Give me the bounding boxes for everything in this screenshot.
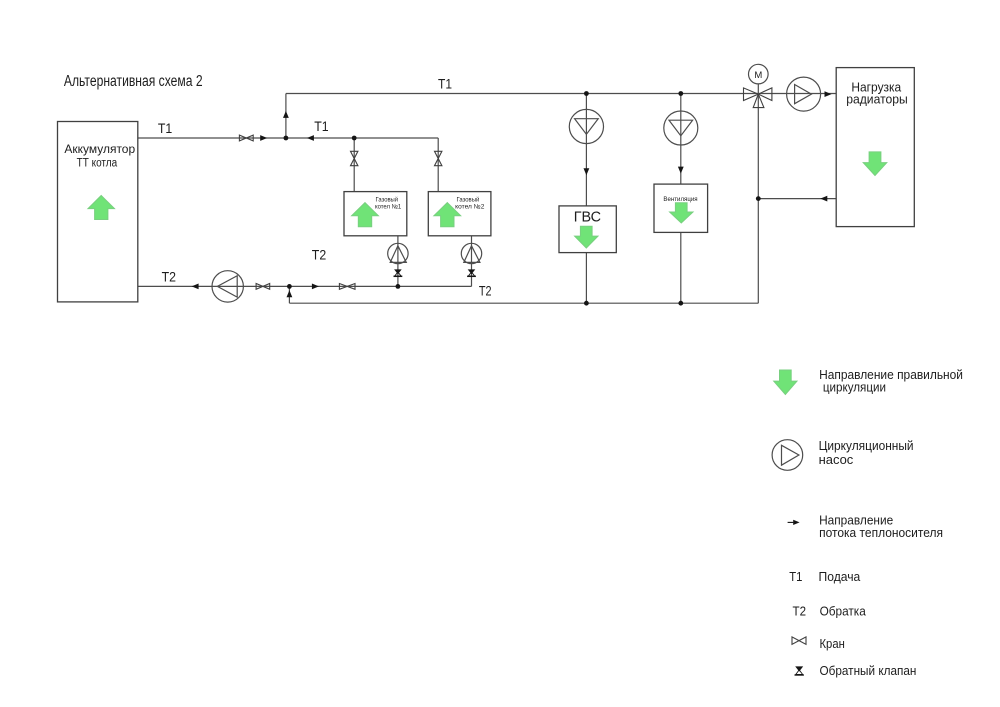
svg-text:Кран: Кран: [820, 636, 845, 651]
pump boiler 2 (points up): [461, 243, 481, 263]
flow arrow down to DHW: [584, 168, 590, 175]
node label T2 (right): [479, 283, 492, 299]
legend text circulation: [819, 367, 963, 395]
flow arrow T2 right (to boilers): [312, 284, 319, 290]
svg-text:Т2: Т2: [312, 247, 327, 263]
node label T2 (left): [162, 269, 177, 285]
svg-text:Т1: Т1: [438, 76, 452, 92]
gas boiler 1 box: [344, 192, 407, 236]
legend check valve symbol: [795, 666, 804, 675]
wire boiler 1 feed: [353, 138, 355, 192]
green arrow DHW (down): [575, 226, 598, 248]
DHW label: [574, 209, 601, 225]
gas boiler 2 label: [455, 195, 485, 210]
pump main T2 (points left): [212, 271, 243, 302]
svg-text:Обратка: Обратка: [820, 604, 867, 619]
wire lower return line: [289, 302, 758, 304]
svg-text:котел №2: котел №2: [455, 203, 485, 210]
svg-text:М: М: [754, 70, 762, 81]
green arrow boiler 1 (up): [352, 203, 379, 227]
wire T2 return line: [138, 285, 472, 287]
node junction 1: [284, 136, 289, 141]
svg-text:Т1: Т1: [789, 569, 802, 584]
node junction 3: [584, 91, 589, 96]
DHW box (ГВС): [559, 206, 616, 253]
node label T2 (middle): [312, 247, 327, 263]
pump ventilation (points down): [664, 111, 698, 145]
wire three-way valve down to lower return: [757, 94, 759, 303]
node junction 8: [678, 301, 683, 306]
node label T1 (middle): [314, 118, 329, 134]
flow arrow up into T2 junction: [287, 290, 293, 297]
svg-text:Т1: Т1: [314, 118, 329, 134]
svg-text:радиаторы: радиаторы: [846, 93, 908, 107]
ventilation box (Вентиляция): [654, 184, 708, 232]
check valve boiler 1 (обратный клапан): [394, 269, 403, 276]
legend flow arrow symbol: [788, 520, 800, 525]
svg-text:циркуляции: циркуляции: [823, 380, 886, 395]
node label T1 (top): [438, 76, 452, 92]
legend green arrow (direction of correct circulation): [774, 370, 797, 395]
accumulator box (Аккумулятор ТТ котла): [58, 122, 138, 302]
wire boiler 1 return: [397, 236, 399, 287]
svg-text:насос: насос: [819, 452, 854, 467]
wire T1 accumulator to riser junction: [138, 137, 286, 139]
svg-text:ГВС: ГВС: [574, 209, 601, 225]
wire DHW feed drop: [585, 94, 587, 206]
flow arrow T2 left (to accumulator): [192, 284, 199, 290]
legend pump symbol: [772, 440, 803, 471]
green arrow boiler 2 (up): [434, 203, 461, 227]
legend text pump: [819, 438, 914, 467]
valve boiler 1 feed (vertical): [351, 151, 358, 165]
wire DHW return drop: [585, 253, 587, 304]
legend text valve: [820, 636, 845, 651]
legend text check valve: [820, 663, 917, 678]
check valve boiler 2 (обратный клапан): [467, 269, 476, 276]
svg-text:ТТ котла: ТТ котла: [77, 157, 118, 169]
svg-text:Т2: Т2: [162, 269, 177, 285]
wire boiler 2 feed: [437, 138, 439, 192]
node junction 5: [287, 284, 292, 289]
wire T1 branch to boilers: [286, 137, 438, 139]
legend label T2: [793, 604, 807, 619]
svg-text:Аккумулятор: Аккумулятор: [64, 144, 135, 156]
wire riser up to top T1 line: [285, 94, 287, 139]
three-way mixing valve: [744, 88, 772, 108]
svg-text:Т2: Т2: [793, 604, 807, 619]
node junction 7: [584, 301, 589, 306]
accumulator label: [64, 144, 135, 169]
wire boiler 2 return: [471, 236, 473, 287]
svg-text:Т1: Т1: [158, 120, 173, 136]
wire stub T2 junction down to lower return: [288, 286, 290, 303]
node junction 4: [678, 91, 683, 96]
svg-text:потока теплоносителя: потока теплоносителя: [819, 525, 943, 540]
radiator load box (Нагрузка радиаторы): [836, 68, 914, 227]
valve on T1 line (кран): [239, 135, 253, 141]
wire ventilation return drop: [680, 232, 682, 303]
flow arrow into radiator box: [825, 91, 832, 97]
valve boiler 2 feed (vertical): [435, 151, 442, 165]
pump boiler 1 (points up): [388, 243, 408, 263]
svg-text:Альтернативная схема 2: Альтернативная схема 2: [64, 73, 203, 90]
svg-text:Вентиляция: Вентиляция: [663, 196, 698, 203]
svg-text:Газовый: Газовый: [376, 195, 399, 203]
flow arrow down to ventilation: [678, 167, 684, 174]
valve actuator M: [749, 64, 769, 94]
pump radiator circuit (points right): [787, 77, 821, 111]
svg-text:Циркуляционный: Циркуляционный: [819, 438, 914, 453]
valve on T2 line after pump (кран): [256, 284, 270, 290]
wire radiator return line: [758, 198, 836, 200]
gas boiler 1 label: [375, 195, 402, 210]
legend text flow direction: [819, 512, 943, 540]
pump DHW (points down): [569, 109, 603, 143]
svg-text:Подача: Подача: [819, 569, 862, 584]
wire ventilation feed drop: [680, 94, 682, 185]
flow arrow T1 right (after valve): [260, 135, 267, 141]
node label T1 (left): [158, 120, 173, 136]
legend valve symbol (кран): [792, 637, 806, 644]
svg-text:Газовый: Газовый: [457, 195, 480, 203]
legend text return: [820, 604, 867, 619]
node junction 9: [756, 196, 761, 201]
node junction 2: [352, 136, 357, 141]
ventilation label: [663, 196, 698, 203]
green arrow accumulator (up): [88, 196, 115, 220]
node junction 6: [396, 284, 401, 289]
flow arrow out of radiator box (left): [820, 196, 827, 202]
legend label T1: [789, 569, 802, 584]
svg-text:котел №1: котел №1: [375, 203, 402, 210]
svg-text:Обратный клапан: Обратный клапан: [820, 663, 917, 678]
gas boiler 2 box: [428, 192, 491, 236]
wire top T1 line: [286, 93, 836, 95]
legend text supply: [819, 569, 862, 584]
flow arrow riser up: [283, 111, 289, 118]
green arrow radiator load (down): [863, 152, 887, 176]
flow arrow T1 left (toward junction): [307, 135, 314, 141]
svg-text:Т2: Т2: [479, 283, 492, 299]
valve on T2 line to boilers (кран): [339, 284, 355, 290]
radiator load label: [846, 80, 908, 106]
green arrow ventilation (down): [670, 203, 693, 223]
title: [64, 73, 203, 90]
